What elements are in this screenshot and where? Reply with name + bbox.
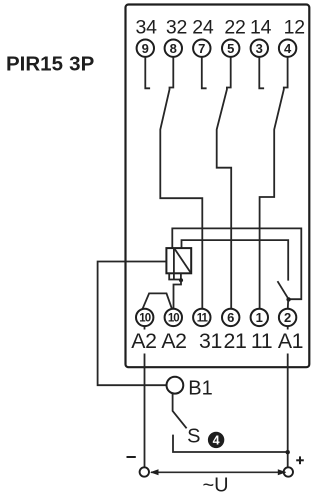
supply range arrow (150, 469, 286, 475)
svg-text:A2: A2 (131, 329, 156, 353)
svg-text:1: 1 (256, 310, 263, 325)
wire: NO fixed contact from pin 9 (145, 57, 150, 88)
svg-text:S: S (187, 425, 200, 447)
svg-text:6: 6 (227, 310, 234, 325)
wire: A2 stub below pin 10 (144, 327, 146, 330)
pin 2 circle (A1) (279, 309, 296, 326)
wire: A2 down to minus terminal (144, 354, 146, 468)
contact blade K3 (pins 12/14 to 11) (260, 57, 288, 308)
svg-text:8: 8 (170, 41, 177, 56)
pin 7 circle (193, 40, 210, 57)
pin 10 circle second (A2) (165, 309, 182, 326)
svg-text:7: 7 (198, 41, 205, 56)
minus sign (127, 456, 136, 458)
wire: A1 stub below pin 2 (287, 327, 289, 330)
svg-text:11: 11 (251, 329, 272, 353)
wire inside small box (173, 273, 175, 279)
switch S blade from B1 (173, 394, 187, 429)
svg-text:3: 3 (256, 41, 263, 56)
plus sign (296, 456, 304, 464)
junction dot at pin 2 (286, 297, 290, 301)
svg-text:B1: B1 (188, 377, 212, 399)
pin 5 circle (222, 40, 239, 57)
wire: A1 rail to coil (pin 2 up over to coil top) (172, 228, 301, 299)
pin 9 circle (137, 40, 154, 57)
coil lower section (small box) (169, 273, 181, 279)
pin 11 circle (31) (193, 309, 210, 326)
svg-text:31: 31 (199, 329, 222, 353)
junction dot below coil (179, 278, 183, 282)
contact blade K2 (pins 22/24 to 21) (217, 57, 232, 308)
wire: A1 down to plus terminal (287, 354, 289, 468)
svg-text:~U: ~U (202, 475, 228, 497)
relay outline box (126, 5, 310, 368)
wire: NO fixed contact from pin 7 (202, 57, 207, 88)
pin 3 circle (251, 40, 268, 57)
svg-text:PIR15 3P: PIR15 3P (6, 52, 94, 75)
junction dot on A1 line (286, 450, 290, 454)
bridge link between A2 pins (10,10) (142, 293, 171, 309)
wire: coil left to B1 terminal (98, 262, 167, 386)
wire: switch S fixed side down and right to A1 line (173, 435, 288, 452)
svg-text:A1: A1 (278, 329, 303, 353)
svg-text:14: 14 (250, 17, 272, 39)
svg-text:32: 32 (166, 17, 187, 39)
coil K (rect with diagonal) (166, 248, 191, 273)
pin 1 circle (11) (251, 309, 268, 326)
svg-text:A2: A2 (161, 329, 186, 353)
plus terminal circle (284, 467, 293, 476)
svg-text:22: 22 (224, 17, 245, 39)
pin 8 circle (165, 40, 182, 57)
wire: NO fixed contact from pin 3 (259, 57, 264, 88)
svg-text:4: 4 (284, 41, 292, 56)
svg-text:5: 5 (227, 41, 234, 56)
svg-text:24: 24 (192, 17, 214, 39)
svg-text:34: 34 (135, 17, 157, 39)
svg-text:10: 10 (139, 313, 150, 325)
pin 4 circle (279, 40, 296, 57)
svg-text:2: 2 (284, 310, 291, 325)
wire: coil to pin 10 (A2) z-step (174, 280, 182, 308)
wire: dot down to pin 2 circle (287, 299, 289, 308)
svg-text:11: 11 (197, 313, 209, 325)
svg-text:9: 9 (142, 41, 149, 56)
svg-text:12: 12 (284, 17, 305, 39)
pin 6 circle (21) (222, 309, 239, 326)
auxiliary contact blade at pin 2 (278, 281, 289, 299)
callout 4 (filled circle) (208, 432, 224, 448)
pin 10 circle (A2) (136, 309, 153, 326)
wire: auxiliary fixed contact rail to coil top (182, 240, 289, 281)
svg-text:4: 4 (213, 433, 220, 447)
svg-text:21: 21 (224, 329, 247, 353)
contact blade K1 (pins 32/34 to 31) (160, 57, 202, 308)
minus terminal circle (140, 467, 149, 476)
svg-text:10: 10 (168, 313, 179, 325)
B1 terminal circle (167, 377, 184, 394)
